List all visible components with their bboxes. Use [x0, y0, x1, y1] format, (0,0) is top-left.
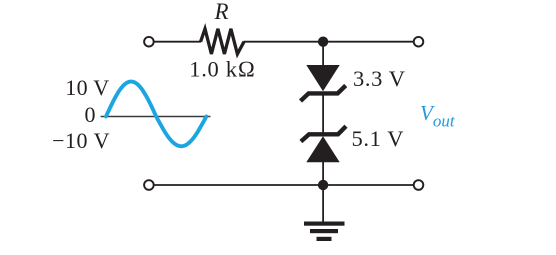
- terminal bottom-left: [144, 180, 154, 190]
- zener diode D2 triangle: [306, 136, 339, 162]
- svg-text:−10 V: −10 V: [52, 128, 110, 153]
- wire zener D2 to bottom node: [322, 161, 324, 185]
- svg-text:1.0 kΩ: 1.0 kΩ: [189, 57, 255, 82]
- wire from top node to zener D1: [322, 42, 324, 66]
- terminal top-right: [414, 37, 424, 47]
- node junction bottom: [318, 180, 328, 190]
- svg-text:R: R: [213, 0, 228, 24]
- svg-text:10 V: 10 V: [65, 75, 109, 100]
- input sine axis line: [101, 116, 211, 118]
- terminal top-left: [144, 37, 154, 47]
- input sine waveform: [106, 82, 206, 147]
- resistor R1 zigzag: [201, 29, 244, 54]
- svg-text:5.1 V: 5.1 V: [352, 126, 405, 151]
- wire top-left segment: [154, 41, 201, 43]
- node junction top: [318, 37, 328, 47]
- zener diode D1 3.3V triangle: [306, 65, 339, 91]
- terminal bottom-right: [414, 180, 424, 190]
- wire bottom rail: [154, 184, 413, 186]
- wire top-right segment: [244, 41, 414, 43]
- wire bottom node to ground: [322, 185, 324, 222]
- zener diode D1 cathode bar: [301, 86, 346, 102]
- svg-text:3.3 V: 3.3 V: [353, 66, 406, 91]
- svg-text:Vout: Vout: [420, 101, 456, 131]
- wire between zeners: [322, 93, 324, 134]
- ground symbol: [304, 222, 345, 242]
- svg-text:0: 0: [85, 102, 96, 127]
- zener diode D2 5.1V cathode bar: [301, 126, 346, 141]
